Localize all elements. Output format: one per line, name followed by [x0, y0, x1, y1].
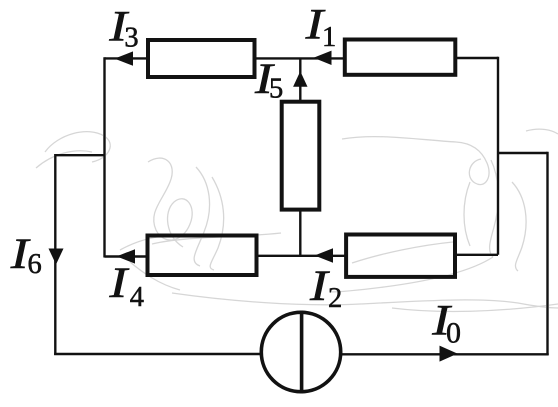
resistor middle vertical (current I5) — [282, 102, 320, 210]
arrow I6 (down) — [49, 249, 64, 265]
resistor top-right (current I1) — [345, 40, 456, 75]
svg-text:0: 0 — [446, 317, 461, 350]
arrow I3 (left) — [115, 51, 134, 65]
current source bar — [300, 311, 304, 394]
arrow I5 (up) — [293, 71, 307, 87]
svg-text:3: 3 — [124, 22, 138, 53]
svg-text:2: 2 — [328, 283, 342, 314]
arrow I4 (left) — [117, 249, 136, 263]
arrow I1 (left) — [314, 51, 332, 65]
wire left mid vertical (x=104.5) — [103, 57, 105, 257]
svg-text:1: 1 — [322, 22, 336, 53]
resistor top-left (current I3) — [148, 40, 255, 77]
resistor bottom-right (current I2) — [346, 235, 455, 277]
wire bottom-row left stub — [105, 255, 151, 257]
wire right vertical (x=498) — [497, 57, 499, 255]
arrow I0 (right) — [440, 346, 458, 362]
wire right jog to outer rail — [498, 152, 548, 154]
pencil squiggle right cloud — [330, 129, 558, 292]
wire middle branch lower stub — [299, 210, 301, 257]
wire left jog to outer rail — [55, 154, 104, 156]
svg-text:6: 6 — [28, 249, 42, 280]
wire bottom rail left of source — [54, 353, 261, 355]
arrow I2 (left) — [315, 248, 334, 262]
wire top-middle horizontal — [255, 57, 346, 59]
svg-text:4: 4 — [130, 282, 144, 313]
svg-text:5: 5 — [269, 73, 283, 104]
wire top-left horizontal — [105, 57, 151, 59]
pencil squiggle bottom wavy line — [172, 293, 558, 311]
wire outer right vertical (x=547.5) — [546, 152, 548, 355]
wire bottom rail right of source — [341, 353, 549, 355]
current source (circle with vertical bar) — [261, 312, 340, 391]
pencil squiggle left cloud — [36, 132, 281, 290]
wire bottom-row middle — [257, 255, 346, 257]
wire outer left vertical (x=55.3) — [54, 154, 56, 355]
wire bottom-row right stub — [455, 254, 498, 256]
svg-text:I: I — [108, 259, 130, 307]
resistor bottom-left (current I4) — [148, 236, 257, 276]
wire middle branch upper stub — [299, 58, 301, 102]
wire top-right horizontal to corner — [454, 57, 498, 59]
